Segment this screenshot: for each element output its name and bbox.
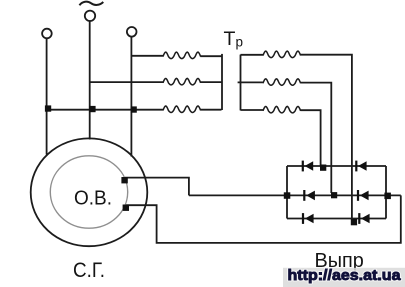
- svg-text:р: р: [236, 35, 244, 50]
- svg-text:http://aes.at.ua: http://aes.at.ua: [288, 267, 402, 284]
- svg-text:О.В.: О.В.: [74, 187, 112, 210]
- svg-text:С.Г.: С.Г.: [73, 259, 105, 282]
- svg-text:Т: Т: [224, 28, 236, 50]
